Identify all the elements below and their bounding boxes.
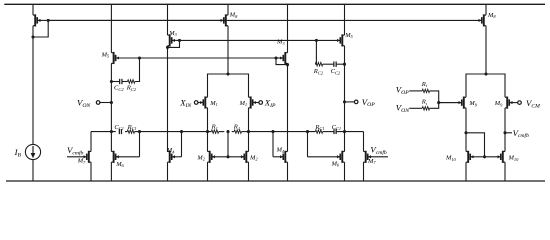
terminal V_CM <box>518 101 522 105</box>
svg-text:CC1: CC1 <box>332 124 342 131</box>
terminal V_OP <box>345 100 359 104</box>
transistor M5 right (second-stage PMOS) <box>316 4 344 46</box>
label M7 left <box>77 158 86 165</box>
svg-text:R1: R1 <box>233 124 240 131</box>
label M10 right <box>508 155 520 162</box>
resistor RC1 left <box>127 130 134 133</box>
svg-text:Rt: Rt <box>421 81 428 88</box>
label M9 left <box>468 100 477 107</box>
label V_OP <box>362 97 375 108</box>
label CC1 right <box>332 124 342 131</box>
resistor RC2 right <box>315 62 322 66</box>
wire Rt bottom run <box>409 103 438 109</box>
wire M8R drain <box>485 26 487 74</box>
svg-text:CC2: CC2 <box>331 68 341 75</box>
label IB <box>14 147 22 158</box>
wire V_cmfb stub <box>505 132 512 134</box>
svg-text:M10: M10 <box>445 155 457 162</box>
label M8 tail <box>229 12 238 19</box>
terminal X_IN <box>194 101 198 105</box>
node bias gate-drain tie <box>31 19 49 145</box>
svg-text:M6: M6 <box>331 160 340 167</box>
node Rt center <box>437 101 440 104</box>
svg-text:RC1: RC1 <box>127 124 137 131</box>
node V_cmfb output tap <box>503 131 506 134</box>
wire M3R drain to M4R <box>287 63 289 151</box>
svg-text:VOP: VOP <box>362 97 375 108</box>
svg-text:M8: M8 <box>229 12 238 19</box>
wire M4R gate riser <box>272 132 274 157</box>
label M5 left <box>101 51 110 58</box>
transistor M2 right (NMOS load) <box>228 132 249 181</box>
label M2 right <box>249 154 258 161</box>
node M3L diode tie <box>166 39 181 49</box>
resistor R1 left <box>211 130 218 133</box>
label CC1 left <box>114 124 124 131</box>
svg-text:M7: M7 <box>77 158 86 165</box>
transistor M7 left (CMFB NMOS) <box>67 132 91 181</box>
node M5L gate tap <box>138 56 141 59</box>
label V_ON sense <box>396 103 410 114</box>
wire node-B row right <box>249 131 364 133</box>
resistor RC2 left <box>128 80 135 84</box>
wire M10 diode loop <box>466 133 485 157</box>
svg-text:RC1: RC1 <box>314 124 324 131</box>
node M10 gate tee <box>483 155 486 158</box>
svg-text:RC2: RC2 <box>126 85 137 92</box>
transistor M3 left (diode PMOS) <box>168 4 180 46</box>
svg-text:M8: M8 <box>487 12 496 19</box>
label V_cmfb right <box>370 144 387 155</box>
node M4L gate tap <box>180 130 183 133</box>
transistor M10 right (mirror NMOS) <box>485 151 506 181</box>
node CMFB tail split <box>484 72 487 75</box>
svg-text:M2: M2 <box>196 154 205 161</box>
node M10 diode tap <box>464 131 467 134</box>
svg-text:M7: M7 <box>367 158 376 165</box>
wire M4L gate riser <box>181 132 183 157</box>
svg-text:M3: M3 <box>168 30 177 37</box>
svg-text:VON: VON <box>77 97 91 108</box>
svg-text:M9: M9 <box>494 100 503 107</box>
wire M3L gate cross line to M5R <box>180 39 317 41</box>
wire M9L drain <box>465 108 467 152</box>
node node-A / R1 junction <box>206 130 209 133</box>
wire M6L gate riser <box>139 132 141 157</box>
transistor M6 left (second-stage NMOS) <box>111 151 139 181</box>
label V_OP sense <box>396 84 409 95</box>
terminal X_IP <box>259 101 263 105</box>
node V_ON output row junction <box>110 130 113 133</box>
wire M1R drain <box>248 108 250 132</box>
svg-text:RC2: RC2 <box>313 68 324 75</box>
wire node-A row left <box>91 131 208 133</box>
svg-text:VON: VON <box>396 103 410 114</box>
transistor M1 right (input PMOS) <box>249 96 260 108</box>
label M7 right <box>367 158 376 165</box>
svg-text:Rt: Rt <box>421 99 428 106</box>
label V_cmfb left <box>67 145 84 156</box>
svg-text:M3: M3 <box>276 39 285 46</box>
wire tail drain <box>227 26 229 74</box>
label X_IN <box>179 98 192 109</box>
label M3 right <box>276 39 285 46</box>
label CC2 right <box>331 68 341 75</box>
label V_ON <box>77 97 91 108</box>
node M4R gate tap <box>271 130 274 133</box>
transistor M8 tail (first stage PMOS) <box>48 4 228 26</box>
terminal V_ON <box>96 101 111 105</box>
transistor MB (diode-connected PMOS bias) <box>33 4 48 26</box>
resistor Rt top <box>422 89 429 92</box>
label RC2 left <box>126 85 137 92</box>
node M5R gate tap <box>315 39 318 42</box>
label X_IP <box>264 98 276 109</box>
label CC2 left <box>114 85 124 92</box>
label M5 right <box>344 32 353 39</box>
transistor M8 right (CMFB tail PMOS) <box>479 4 487 26</box>
resistor RC1 right <box>315 130 322 133</box>
capacitor CC2 left <box>120 79 122 84</box>
wire Rt top run <box>409 91 438 103</box>
node M6L gate node-A tap <box>138 130 141 133</box>
transistor M9 right (CMFB PMOS) <box>505 97 518 109</box>
svg-text:M2: M2 <box>249 154 258 161</box>
wire bias gate line <box>48 19 481 21</box>
svg-text:M9: M9 <box>468 100 477 107</box>
svg-text:CC2: CC2 <box>114 85 124 92</box>
svg-text:XIP: XIP <box>264 98 276 109</box>
wire M3L drain to M4L <box>167 46 169 152</box>
svg-text:M5: M5 <box>101 51 110 58</box>
label M1 left <box>209 100 218 107</box>
wire M1L drain <box>207 108 209 132</box>
wire R1 segs <box>208 131 249 133</box>
svg-text:Vcmfb: Vcmfb <box>67 145 84 156</box>
svg-text:M4: M4 <box>166 147 175 154</box>
svg-text:XIN: XIN <box>179 98 192 109</box>
svg-text:IB: IB <box>14 147 22 158</box>
transistor M4 left (NMOS) <box>168 151 182 181</box>
node V_ON Cc2 tap <box>110 80 113 83</box>
capacitor CC2 right <box>334 62 336 67</box>
node M2 gate tee <box>226 155 229 158</box>
label M3 left <box>168 30 177 37</box>
svg-text:M10: M10 <box>508 155 520 162</box>
node tail split <box>226 72 229 75</box>
label M9 right <box>494 100 503 107</box>
transistor M2 left (NMOS load) <box>208 132 229 181</box>
wire source yoke M1 pair <box>208 74 249 97</box>
transistor M9 left (CMFB PMOS) <box>439 97 466 109</box>
node R1 center tap <box>226 130 229 133</box>
svg-text:VOP: VOP <box>396 84 409 95</box>
label M1 right <box>239 100 248 107</box>
label R1 left <box>211 124 218 131</box>
wire V_OP column <box>344 46 346 152</box>
svg-text:Vcmfb: Vcmfb <box>370 144 387 155</box>
label M8 right <box>487 12 496 19</box>
wire Rt node to M9L gate <box>439 102 462 104</box>
label RC2 right <box>313 68 324 75</box>
label Rt bottom <box>421 99 428 106</box>
svg-text:Vcmfb: Vcmfb <box>513 128 530 139</box>
wire VSS rail <box>6 180 545 182</box>
current source IB <box>25 144 40 181</box>
svg-text:CC1: CC1 <box>114 124 124 131</box>
transistor M6 right (second-stage NMOS) <box>308 151 345 181</box>
svg-text:M1: M1 <box>239 100 248 107</box>
label V_CM <box>526 98 540 109</box>
wire V_ON column <box>110 63 112 151</box>
transistor M4 right (NMOS) <box>273 151 288 181</box>
label M4 right <box>276 147 285 154</box>
label V_cmfb output <box>513 128 530 139</box>
label RC1 right <box>314 124 324 131</box>
svg-text:R1: R1 <box>211 124 218 131</box>
label M6 right <box>331 160 340 167</box>
node V_OP terminal tap <box>343 100 346 103</box>
capacitor CC1 right <box>334 129 336 134</box>
label M10 left <box>445 155 457 162</box>
svg-text:M6: M6 <box>115 161 124 168</box>
label Rt top <box>421 81 428 88</box>
node M6R gate tap <box>306 130 309 133</box>
svg-text:M4: M4 <box>276 147 285 154</box>
label R1 right <box>233 124 240 131</box>
svg-text:VCM: VCM <box>526 98 540 109</box>
wire source yoke M9 pair <box>466 74 505 97</box>
wire CC2/RC2 left branch <box>111 58 139 82</box>
svg-text:M5: M5 <box>344 32 353 39</box>
label M4 left <box>166 147 175 154</box>
svg-text:M1: M1 <box>209 100 218 107</box>
label RC1 left <box>127 124 137 131</box>
node M3R diode tie <box>274 56 289 66</box>
label M2 left <box>196 154 205 161</box>
resistor Rt bottom <box>422 107 429 110</box>
transistor M3 right (diode PMOS) <box>276 4 288 64</box>
node V_OP output row junction <box>343 130 346 133</box>
node V_ON terminal tap <box>110 101 113 104</box>
transistor M10 left (diode NMOS) <box>466 151 485 181</box>
transistor M5 left (second-stage PMOS) <box>111 4 140 64</box>
wire M2 gate riser <box>227 132 229 157</box>
wire M5L gate cross line to M3R <box>140 57 277 59</box>
transistor M7 right (CMFB NMOS) <box>364 132 389 181</box>
wire VDD rail <box>4 3 545 5</box>
wire M6R gate riser <box>307 132 309 157</box>
wire CC2/RC2 right branch <box>315 40 344 64</box>
label M6 left <box>115 161 124 168</box>
node V_OP Cc2 tap <box>343 63 346 66</box>
resistor R1 right <box>234 130 241 133</box>
capacitor CC1 left <box>119 129 121 134</box>
wire M9R drain <box>504 108 506 152</box>
node node-B / R1 junction <box>247 130 250 133</box>
transistor M1 left (input PMOS) <box>198 96 208 108</box>
